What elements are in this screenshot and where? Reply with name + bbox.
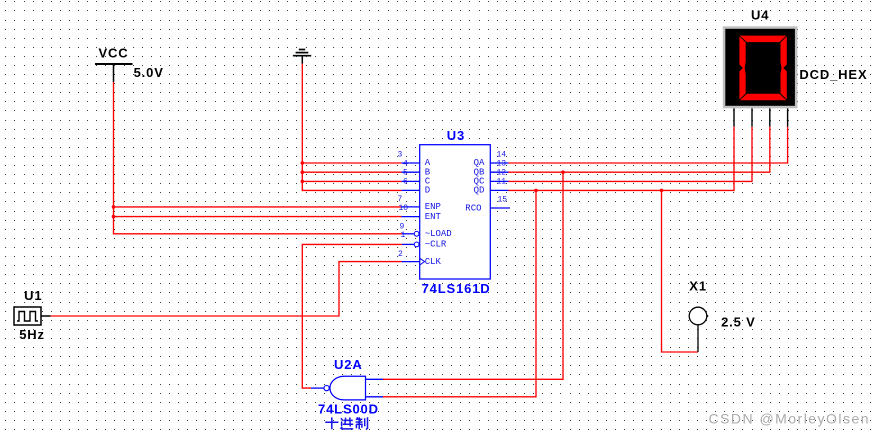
wire NAND output to ~CLR	[302, 244, 402, 388]
svg-text:74LS161D: 74LS161D	[422, 281, 491, 296]
wire ground to A	[302, 162, 401, 164]
svg-text:74LS00D: 74LS00D	[318, 402, 379, 417]
U3 pin ~LOAD stub (pin 9) with bubble	[402, 231, 419, 236]
U3 pin A stub (pin 3)	[401, 162, 419, 164]
wire QC to display pin 2	[509, 127, 753, 182]
U3 pin CLK stub (pin 2) with clock triangle	[402, 258, 425, 265]
segment e	[739, 66, 745, 99]
junction VCC/ENP	[112, 205, 116, 209]
U3 pin D stub (pin 6)	[401, 189, 419, 191]
wire QD to NAND input B	[383, 190, 536, 396]
wire VCC to ENT	[114, 216, 402, 218]
U3 pin numbers left	[398, 151, 409, 260]
svg-text:QD: QD	[474, 186, 485, 196]
svg-text:2.5 V: 2.5 V	[721, 314, 756, 329]
power VCC	[95, 45, 133, 82]
svg-text:CLK: CLK	[425, 257, 442, 267]
svg-text:D: D	[425, 186, 430, 196]
display pin 1	[733, 108, 735, 126]
svg-text:ENP: ENP	[425, 202, 441, 212]
svg-text:U2A: U2A	[334, 357, 363, 372]
svg-text:4: 4	[403, 160, 408, 169]
display pin 2	[751, 108, 753, 126]
U3 pin ENP stub (pin 7)	[401, 206, 419, 208]
svg-text:12: 12	[497, 169, 507, 178]
NAND gate U2A 74LS00D (mirrored)	[311, 357, 383, 400]
U3 pin QD stub (pin 11)	[490, 189, 508, 191]
U3 pin QB stub (pin 13)	[490, 171, 508, 173]
wire U1 to CLK	[51, 262, 402, 316]
ground	[293, 50, 311, 64]
svg-text:2: 2	[398, 250, 403, 259]
svg-text:ENT: ENT	[425, 212, 442, 222]
junction VCC/ENT	[112, 215, 116, 219]
clock source U1	[14, 288, 51, 325]
svg-text:5: 5	[403, 169, 408, 178]
svg-text:13: 13	[497, 160, 507, 169]
svg-text:U3: U3	[447, 128, 465, 143]
U3 pin B stub (pin 4)	[401, 171, 419, 173]
svg-text:14: 14	[497, 151, 507, 160]
segment b	[781, 36, 787, 69]
svg-text:U1: U1	[24, 288, 42, 303]
U3 pin RCO stub (pin 15)	[490, 207, 510, 209]
U3 pin numbers right	[497, 151, 508, 205]
counter U3 74LS161D	[420, 128, 491, 296]
wire ground to B	[302, 171, 401, 173]
svg-text:5Hz: 5Hz	[19, 327, 45, 342]
segment f	[739, 36, 745, 69]
U3 pin QC stub (pin 12)	[490, 180, 508, 182]
junction QD/X1	[660, 189, 664, 193]
svg-text:RCO: RCO	[465, 203, 481, 213]
svg-text:CSDN @MorleyOlsen: CSDN @MorleyOlsen	[709, 411, 871, 427]
wire ground vertical to D	[302, 64, 401, 191]
wire QA to display pin 4	[509, 127, 788, 163]
svg-text:DCD_HEX: DCD_HEX	[799, 67, 867, 82]
svg-text:~LOAD: ~LOAD	[425, 229, 452, 239]
svg-text:3: 3	[398, 151, 403, 160]
junction ground/C	[301, 180, 305, 184]
display U4 DCD_HEX	[723, 8, 798, 127]
svg-text:10: 10	[399, 204, 409, 213]
svg-text:VCC: VCC	[99, 45, 129, 60]
wire QD to display pin 1	[509, 127, 735, 191]
display pin 4	[787, 108, 789, 126]
probe X1	[689, 278, 708, 352]
U3 pin C stub (pin 5)	[401, 180, 419, 182]
junction ground/B	[301, 170, 305, 174]
segment d	[740, 94, 786, 101]
segment c	[781, 66, 787, 99]
display pin 3	[769, 108, 771, 126]
U3 pin labels	[425, 158, 485, 267]
svg-text:X1: X1	[689, 278, 707, 293]
svg-text:5.0V: 5.0V	[134, 65, 164, 80]
svg-text:7: 7	[398, 195, 403, 204]
svg-text:~CLR: ~CLR	[425, 240, 447, 250]
wire VCC vertical to ~LOAD	[114, 82, 403, 234]
svg-text:U4: U4	[751, 8, 769, 23]
U3 pin QA stub (pin 14)	[490, 162, 508, 164]
wire VCC to ENP	[114, 206, 402, 208]
svg-text:15: 15	[498, 196, 508, 205]
U2A label 十进制 (drawn)	[325, 417, 367, 429]
wire QD to probe X1	[662, 190, 699, 352]
wire ground to C	[302, 180, 401, 182]
svg-text:1: 1	[401, 231, 406, 240]
junction QD/NAND	[534, 189, 538, 193]
svg-text:6: 6	[403, 178, 408, 187]
wire QB to NAND input A	[383, 172, 563, 379]
segment a	[740, 36, 786, 43]
wire QB to display pin 3	[509, 127, 770, 173]
U3 pin ~CLR stub (pin 1) with bubble	[402, 242, 419, 247]
junction QB/NAND	[561, 170, 565, 174]
svg-text:11: 11	[497, 178, 507, 187]
U3 pin ENT stub (pin 10)	[401, 216, 419, 218]
junction ground/A	[301, 161, 305, 165]
